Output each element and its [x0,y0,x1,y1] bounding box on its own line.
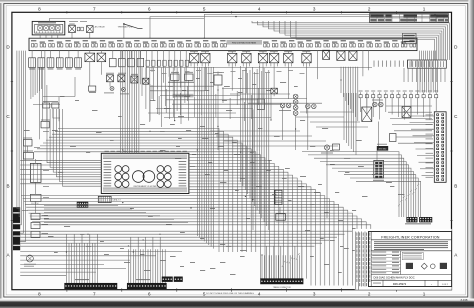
expansion connector A [407,217,418,222]
connector circles group C [373,102,378,107]
border row letters [6,45,458,258]
key switch label [321,152,333,155]
wire trunk verticals mid [196,67,198,236]
svg-text:A/C RELAY: A/C RELAY [95,26,106,29]
connector circles group B [306,104,311,109]
relay group mid-left [107,75,114,82]
svg-text:DO NOT SCALE DWG USE OF THIS D: DO NOT SCALE DWG USE OF THIS DRAWING [206,292,254,295]
bulkhead connector labels [426,114,434,117]
connector row J2 [110,58,117,66]
wire band stubs [140,51,142,85]
svg-text:THERMAL FUSE: THERMAL FUSE [118,25,134,28]
horn relay [171,74,180,80]
relay K4 [97,53,106,62]
relay K17 [271,88,278,94]
svg-text:ATS GND: ATS GND [378,148,387,151]
fuse row FB right [359,95,362,98]
wire mid-left stubs [43,96,75,98]
relay K3 [85,53,95,62]
dimmer switch [30,163,41,182]
svg-text:7: 7 [93,292,96,297]
svg-text:2: 2 [368,292,371,297]
svg-text:3: 3 [313,292,316,297]
title block [355,229,452,290]
approval marks [406,263,413,269]
data junction connector right [374,161,384,179]
terminal block fuses [38,26,43,31]
wire left extra verticals [39,67,41,139]
bulkhead connector right [434,112,446,183]
junction dots [122,149,123,150]
relay K1 pins [69,23,75,26]
thermal fuse F1 [123,23,125,25]
svg-text:8: 8 [38,292,41,297]
expansion connector B [419,217,432,222]
cruise switch [23,152,33,159]
revision table [370,14,449,23]
FWD distribution harness label [227,40,263,45]
drawing number row [382,280,384,286]
page edge shadow left [0,0,3,308]
instrument cluster pin labels left [104,160,112,163]
relay K16 [402,107,411,118]
svg-text:1 OF 2: 1 OF 2 [442,284,449,286]
wire right region verticals [417,60,419,92]
wire cluster feed [20,159,101,161]
wire cluster top verticals [141,67,143,96]
relay row K5-K12 [190,53,199,62]
pressure switch circles [110,87,114,91]
svg-text:B: B [454,183,457,188]
connector row J1 labels [29,68,35,71]
svg-text:7: 7 [93,7,96,12]
wire main fan [58,128,219,252]
wire trunk verticals right-mid [240,66,242,182]
fuel/water sensor boxes [43,103,50,108]
fuse panel labels [31,40,36,41]
speedometer gauge [133,171,145,183]
relay K14 [337,51,345,60]
ALTNR selector label [173,94,194,98]
lamp module [89,86,96,91]
relay row lower pins [191,63,310,67]
terminal block TB1 [32,21,65,35]
ignition switch [324,145,329,150]
svg-text:2: 2 [368,7,371,12]
wire misc crossings [89,62,91,86]
gauge small right [157,166,164,173]
right branch components [362,107,372,122]
vertical connector mid [275,190,282,204]
left bulkhead connector lower [13,232,20,251]
wire bottom-left low horizontals [20,268,126,270]
svg-text:4: 4 [258,7,261,12]
wire relay row drops [193,66,195,96]
instrument cluster top labels [105,150,109,153]
relay K1 [69,25,76,32]
svg-text:D06 DIAG SCHEM MAIN FLX DOC: D06 DIAG SCHEM MAIN FLX DOC [374,275,415,279]
svg-text:5: 5 [203,7,206,12]
relay K13 [323,50,330,59]
svg-text:1: 1 [423,292,426,297]
right connector strip ticks [374,61,429,67]
wire bundle center verticals [120,51,122,154]
svg-text:D06-25972: D06-25972 [393,282,407,286]
wire bottom-left lower horizontals [20,251,182,253]
cab connector [65,283,117,289]
trailer connector symbol [26,255,33,262]
left bulkhead connector upper [13,208,20,230]
slanted wire tags [282,184,420,268]
connector row J1 [29,58,36,68]
left component labels [43,130,49,133]
svg-text:FWD DISTRIBUTION HARN: FWD DISTRIBUTION HARN [232,41,257,44]
title table rows [371,253,400,255]
wire verticals to cab connector [65,234,67,283]
wire left risers [46,108,48,121]
page edge shadow bottom [0,299,474,308]
svg-text:6: 6 [148,292,151,297]
wire mid bus upper [44,205,118,207]
instrument cluster bottom pins [104,189,186,193]
svg-text:8-93B: 8-93B [461,298,468,302]
relay row area specks [150,69,155,72]
wire labels [60,95,65,98]
wire bottom-left long horizontals [20,230,352,232]
wire bundle left components [30,67,32,99]
gauge small left [115,166,122,173]
page edge shadow top [0,0,474,3]
wire verticals to dash connector [127,249,129,283]
terminal block label [38,22,56,23]
clutch switch [30,194,41,201]
ATS GND box [377,146,388,151]
trans connector [261,279,304,284]
engine connector [162,277,173,282]
svg-text:4: 4 [258,292,261,297]
svg-text:3: 3 [313,7,316,12]
fuse row FB right lower symbols [403,68,405,82]
trailer tank module [276,214,286,220]
wire top bus C [204,14,447,38]
diode pack D1 [77,27,80,31]
wire verticals to trans connector [261,255,263,278]
svg-text:1: 1 [423,7,426,12]
mid-left labels [106,72,114,75]
wire relay K2 drop [89,33,91,39]
junction [235,16,236,17]
title block side text [356,233,370,287]
page edge shadow right [469,0,474,308]
diagnostic connector [77,202,88,208]
wire wrap bus [252,21,449,60]
stoplight switches [31,213,40,219]
border column numbers bottom [38,292,426,297]
relay K2 A/C [87,26,94,33]
sensor box [257,99,264,110]
wire right stair to expansion [302,152,399,217]
wire underbus relay row [146,67,372,69]
right small box [390,134,397,142]
svg-text:B: B [6,183,9,188]
wire right fuse drops [360,102,362,113]
park brake switch [41,121,49,128]
instrument cluster top pins [104,154,186,158]
FWD distribution fuse panel [29,38,417,50]
terminal block output stubs [39,35,41,38]
wire thermal fuse drop [123,24,125,38]
title block side columns [357,232,359,290]
svg-text:DATA JCT: DATA JCT [113,199,122,202]
svg-text:TRANS CONNECTOR: TRANS CONNECTOR [273,286,292,289]
instrument cluster pin labels right [179,160,187,163]
svg-text:8: 8 [38,7,41,12]
wire top bus B [150,17,436,39]
title right cell [402,252,423,259]
wire top bus A [49,19,204,22]
connector circle chain [293,94,298,99]
wire bundle left edge [17,51,20,209]
wire right verticals into panel [419,51,421,61]
relay K15 [349,51,357,60]
expansion connector label [405,222,431,225]
data junction block [98,196,111,202]
connector circles group A [280,103,285,108]
wire center stubs [151,85,153,99]
wire right region horizontals [386,105,432,107]
wire feeds tall connector [408,115,434,117]
fuse panel symbols [32,44,416,47]
title table labels [372,251,386,254]
revision table entries [370,14,384,17]
wire center horizontals [150,85,214,87]
right distribution connector [408,60,447,68]
ambient switch [23,139,32,146]
proprietary note [374,240,448,243]
breaker row CB [146,60,149,66]
PDM label box [403,33,417,44]
instrument cluster ICU [101,153,189,193]
svg-text:FREIGHTLINER CORPORATION: FREIGHTLINER CORPORATION [381,235,440,239]
wire relay K1 drop [71,33,73,39]
wire right mid verticals [340,67,342,93]
data junction label [373,179,384,182]
svg-text:INSTRUMENT CLUSTER: INSTRUMENT CLUSTER [134,186,158,188]
tachometer gauge [143,171,155,183]
border column numbers top [38,7,426,12]
dash connector [127,283,166,289]
flasher module [214,75,222,85]
svg-text:6: 6 [148,7,151,12]
